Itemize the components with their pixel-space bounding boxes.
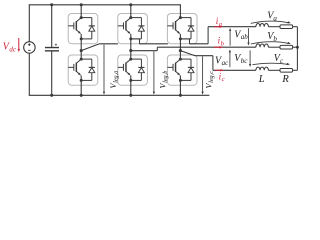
wire: emitter vertical bbox=[80, 34, 82, 39]
svg-text:b: b bbox=[273, 35, 277, 43]
IGBT module box: leg c top switch T5 bbox=[167, 14, 197, 44]
voltage arrow v_a (arc) bbox=[251, 21, 289, 23]
IGBT T5 bbox=[172, 22, 174, 29]
node: T3 emitter junction bbox=[129, 37, 132, 40]
wire: negative DC rail (bottom) bbox=[29, 94, 210, 96]
svg-text:L: L bbox=[258, 74, 265, 85]
node: T4 collector junction bbox=[129, 58, 132, 61]
IGBT module box: leg c bottom switch T6 bbox=[167, 55, 197, 85]
voltage arrow v_leg,c bbox=[202, 56, 204, 92]
wire: phase b coil to resistor bbox=[268, 46, 280, 48]
wire: phase b to load bbox=[157, 46, 256, 48]
source - sign bbox=[28, 49, 31, 51]
node: T2 emitter junction bbox=[80, 79, 83, 82]
voltage arrow v_c (arc) bbox=[253, 63, 288, 64]
voltage arrow v_bc (up, left) bbox=[229, 52, 231, 68]
resistor R phase c bbox=[280, 69, 293, 73]
diode D1 (antiparallel) bbox=[81, 17, 92, 19]
wire: capacitor bottom lead bbox=[51, 51, 53, 95]
Vdc reference arrow (red, downward) bbox=[18, 38, 20, 50]
wire: phase c coil to resistor bbox=[268, 69, 280, 71]
wire: phase c from leg c midpoint (diagonal) bbox=[180, 51, 195, 56]
wire: leg b tap jog bbox=[131, 39, 140, 44]
junction: star point / phase b bbox=[296, 46, 299, 49]
diode D6 (antiparallel) bbox=[180, 58, 191, 60]
node: T6 collector junction bbox=[179, 58, 182, 61]
wire: leg a upper device vertical bbox=[80, 5, 82, 18]
IGBT module box: leg a bottom switch T2 bbox=[68, 55, 98, 85]
svg-text:leg,c: leg,c bbox=[208, 71, 215, 83]
wire: leg c lower device vertical bbox=[179, 51, 181, 60]
wire: capacitor top lead bbox=[51, 5, 53, 47]
wire: phase c to load bbox=[213, 69, 256, 71]
wire: positive DC rail (top) bbox=[29, 4, 181, 6]
wire: star point vertical bbox=[296, 27, 298, 71]
wire: emitter vertical bbox=[130, 76, 132, 81]
junction: leg a / top rail bbox=[80, 3, 83, 6]
junction: leg a / bottom rail bbox=[80, 94, 83, 97]
node: leg b midpoint bbox=[129, 49, 132, 52]
diode D5 (antiparallel) bbox=[180, 17, 191, 19]
IGBT module box: leg a top switch T1 bbox=[68, 14, 98, 44]
label v_leg,c bbox=[204, 71, 215, 89]
wire: phase a horizontal segment 2 bbox=[140, 43, 168, 45]
voltage arrow v_b (arc) bbox=[251, 42, 289, 44]
svg-text:ac: ac bbox=[222, 59, 230, 67]
capacitor + polarity mark bbox=[55, 44, 57, 46]
svg-text:leg,b: leg,b bbox=[162, 71, 169, 83]
IGBT T1 bbox=[73, 22, 75, 29]
wire: phase c drop bbox=[212, 56, 214, 71]
node: T5 collector junction bbox=[179, 16, 182, 19]
node: leg a midpoint bbox=[80, 49, 83, 52]
label v_leg,a bbox=[109, 71, 120, 89]
wire: emitter vertical bbox=[179, 34, 181, 39]
wire: leg b upper device vertical bbox=[130, 5, 132, 18]
junction: leg c / bottom rail bbox=[179, 94, 182, 97]
inductor L phase b bbox=[256, 44, 268, 47]
IGBT T2 bbox=[73, 64, 75, 71]
wire: leg b lower device vertical bbox=[130, 51, 132, 60]
wire: leg c tap jog bbox=[180, 39, 189, 44]
wire: phase c resistor to star point bbox=[293, 69, 298, 71]
node: leg c midpoint bbox=[179, 49, 182, 52]
IGBT T3 bbox=[122, 22, 124, 29]
wire: phase b step up bbox=[156, 47, 158, 51]
svg-text:ab: ab bbox=[241, 33, 249, 41]
node: T1 collector junction bbox=[80, 16, 83, 19]
junction: leg b / top rail bbox=[129, 3, 132, 6]
wire: phase b resistor to star point bbox=[293, 46, 298, 48]
junction: capacitor / bottom rail bbox=[50, 94, 53, 97]
voltage arrow v_bc (down, right) bbox=[249, 50, 251, 65]
wire: leg a lower device vertical bbox=[80, 51, 82, 60]
IGBT T6 bbox=[172, 64, 174, 71]
source + sign bbox=[28, 43, 30, 46]
current arrow i_a (red) bbox=[214, 26, 220, 28]
node: T3 collector junction bbox=[129, 16, 132, 19]
wire: phase a horizontal segment 3 bbox=[190, 43, 209, 45]
wire: phase a riser bbox=[207, 27, 209, 44]
resistor R phase a bbox=[280, 25, 293, 29]
wire: phase a horizontal segment 1 bbox=[100, 43, 118, 45]
wire: emitter vertical bbox=[80, 76, 82, 81]
svg-text:bc: bc bbox=[241, 57, 249, 65]
svg-text:c: c bbox=[222, 76, 225, 83]
svg-text:a: a bbox=[273, 14, 277, 22]
wire: phase a output from leg a midpoint (diagonal) bbox=[81, 44, 99, 51]
node: T2 collector junction bbox=[80, 58, 83, 61]
voltage arrow v_ab (up, left) bbox=[229, 30, 231, 46]
wire: phase a resistor to star point bbox=[293, 26, 298, 28]
wire: left vertical from source - terminal to bottom rail bbox=[28, 53, 30, 95]
wire: left vertical from top rail to source + terminal bbox=[28, 5, 30, 42]
capacitor C plates bbox=[45, 47, 59, 49]
wire: phase a to load bbox=[208, 26, 256, 28]
wire: leg c upper device vertical bbox=[179, 5, 181, 18]
IGBT module box: leg b bottom switch T4 bbox=[118, 55, 148, 85]
inductor L phase a bbox=[256, 24, 268, 27]
diode D2 (antiparallel) bbox=[81, 58, 92, 60]
junction: leg b / bottom rail bbox=[129, 94, 132, 97]
resistor R phase b bbox=[280, 45, 293, 49]
wire: phase a coil to resistor bbox=[268, 26, 280, 28]
wire: emitter vertical bbox=[179, 76, 181, 81]
voltage arrow v_leg,b bbox=[153, 51, 155, 92]
junction: capacitor / top rail bbox=[50, 3, 53, 6]
wire: phase b from leg b midpoint bbox=[131, 50, 158, 52]
diode D3 (antiparallel) bbox=[131, 17, 142, 19]
voltage source Vdc circle bbox=[24, 42, 36, 54]
wire: phase c horizontal bbox=[195, 55, 213, 57]
svg-text:dc: dc bbox=[9, 45, 17, 53]
node: T5 emitter junction bbox=[179, 37, 182, 40]
svg-text:leg,a: leg,a bbox=[113, 71, 120, 83]
inductor L phase c bbox=[256, 67, 268, 70]
svg-text:R: R bbox=[281, 74, 289, 85]
diode D4 (antiparallel) bbox=[131, 58, 142, 60]
voltage arrow v_leg,a bbox=[103, 45, 105, 93]
voltage arrow v_ab (down, right) bbox=[248, 28, 250, 43]
current arrow i_c (red) bbox=[215, 69, 221, 71]
node: T4 emitter junction bbox=[129, 79, 132, 82]
IGBT module box: leg b top switch T3 bbox=[118, 14, 148, 44]
node: T6 emitter junction bbox=[179, 79, 182, 82]
node: T1 emitter junction bbox=[80, 37, 83, 40]
IGBT T4 bbox=[122, 64, 124, 71]
current arrow i_b (red) bbox=[214, 46, 220, 48]
label v_leg,b bbox=[159, 71, 170, 89]
wire: emitter vertical bbox=[130, 34, 132, 39]
